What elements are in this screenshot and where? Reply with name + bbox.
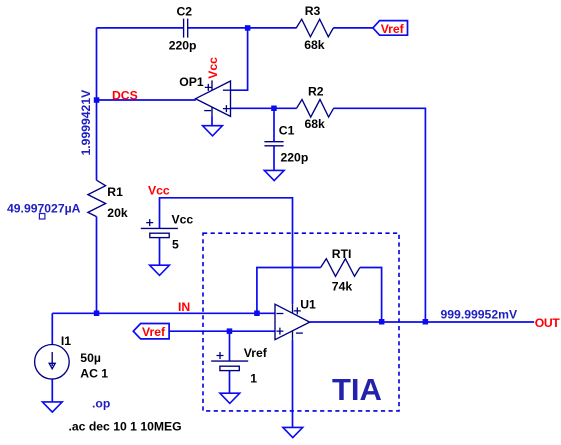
svg-text:74k: 74k [332, 279, 353, 293]
svg-text:999.99952mV: 999.99952mV [441, 307, 518, 321]
svg-text:220p: 220p [169, 38, 197, 52]
svg-text:Vcc: Vcc [206, 57, 220, 79]
svg-text:220p: 220p [281, 151, 309, 165]
svg-text:AC 1: AC 1 [80, 366, 108, 380]
svg-text:68k: 68k [304, 38, 325, 52]
svg-text:Vcc: Vcc [172, 213, 194, 227]
svg-text:1.9999421V: 1.9999421V [79, 89, 93, 156]
svg-text:Vref: Vref [142, 325, 166, 339]
svg-text:R3: R3 [305, 4, 321, 18]
svg-text:50µ: 50µ [80, 351, 101, 365]
svg-text:I1: I1 [61, 334, 71, 348]
svg-text:20k: 20k [107, 206, 128, 220]
svg-text:DCS: DCS [112, 88, 138, 102]
svg-text:R1: R1 [107, 185, 123, 199]
svg-text:C1: C1 [279, 124, 295, 138]
svg-text:RTI: RTI [332, 247, 352, 261]
svg-text:68k: 68k [305, 117, 326, 131]
svg-text:1: 1 [250, 372, 257, 386]
svg-text:Vref: Vref [381, 22, 405, 36]
svg-text:5: 5 [172, 238, 179, 252]
svg-text:IN: IN [178, 300, 190, 314]
svg-text:49.997027µA: 49.997027µA [7, 201, 81, 215]
svg-text:OUT: OUT [535, 316, 560, 330]
svg-text:U1: U1 [300, 297, 316, 311]
svg-text:OP1: OP1 [179, 75, 204, 89]
svg-text:Vref: Vref [244, 346, 268, 360]
svg-text:Vcc: Vcc [148, 184, 170, 198]
svg-text:C2: C2 [177, 5, 193, 19]
svg-text:R2: R2 [308, 84, 324, 98]
svg-text:TIA: TIA [332, 372, 382, 407]
svg-text:.op: .op [92, 396, 110, 410]
svg-text:.ac dec 10 1 10MEG: .ac dec 10 1 10MEG [69, 419, 182, 433]
